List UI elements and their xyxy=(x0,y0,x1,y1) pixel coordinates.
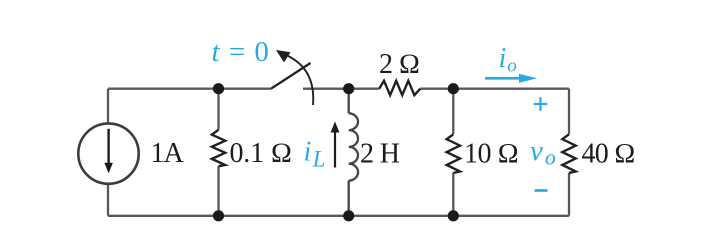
wire top rail left segment xyxy=(108,88,271,90)
resistor R 40 ohm zigzag xyxy=(562,134,575,173)
svg-text:1A: 1A xyxy=(151,138,185,169)
switch motion arc with arrowhead xyxy=(285,55,313,106)
svg-text:10 Ω: 10 Ω xyxy=(464,139,519,170)
wire right branch xyxy=(568,89,570,216)
node top A (0.1-ohm branch) xyxy=(213,83,224,94)
svg-text:vo: vo xyxy=(530,135,556,170)
inductor L 2H coil xyxy=(349,113,358,180)
wire 10-ohm branch xyxy=(452,89,454,216)
wire 0.1-ohm branch xyxy=(217,89,219,216)
wire bottom rail xyxy=(108,215,569,217)
resistor R 2 ohm zigzag (horizontal) xyxy=(379,81,420,95)
wire top rail right segment xyxy=(420,88,569,90)
node bottom A xyxy=(213,210,224,221)
svg-text:40 Ω: 40 Ω xyxy=(582,139,635,170)
svg-text:t = 0: t = 0 xyxy=(212,36,269,68)
iL arrow xyxy=(331,122,340,168)
wire top rail middle segment xyxy=(303,88,379,90)
switch blade xyxy=(271,63,311,89)
svg-text:2 Ω: 2 Ω xyxy=(379,49,420,80)
resistor R 0.1 ohm zigzag xyxy=(212,130,225,166)
plus sign (cyan) xyxy=(534,97,548,111)
minus sign (cyan) xyxy=(535,189,548,192)
node bottom C xyxy=(448,210,459,221)
io arrow (cyan) xyxy=(485,74,537,83)
svg-text:iL: iL xyxy=(304,137,326,172)
current source I1 circle xyxy=(78,123,138,183)
current source I1 arrow xyxy=(104,129,113,174)
svg-text:io: io xyxy=(499,43,517,77)
svg-text:2 H: 2 H xyxy=(360,139,400,170)
node top B (inductor branch) xyxy=(343,83,354,94)
node bottom B xyxy=(343,210,354,221)
svg-text:0.1 Ω: 0.1 Ω xyxy=(230,138,293,169)
wire inductor branch xyxy=(348,89,350,216)
node top C (10-ohm branch) xyxy=(448,83,459,94)
resistor R 10 ohm zigzag xyxy=(447,134,460,173)
wire left branch xyxy=(107,89,109,216)
